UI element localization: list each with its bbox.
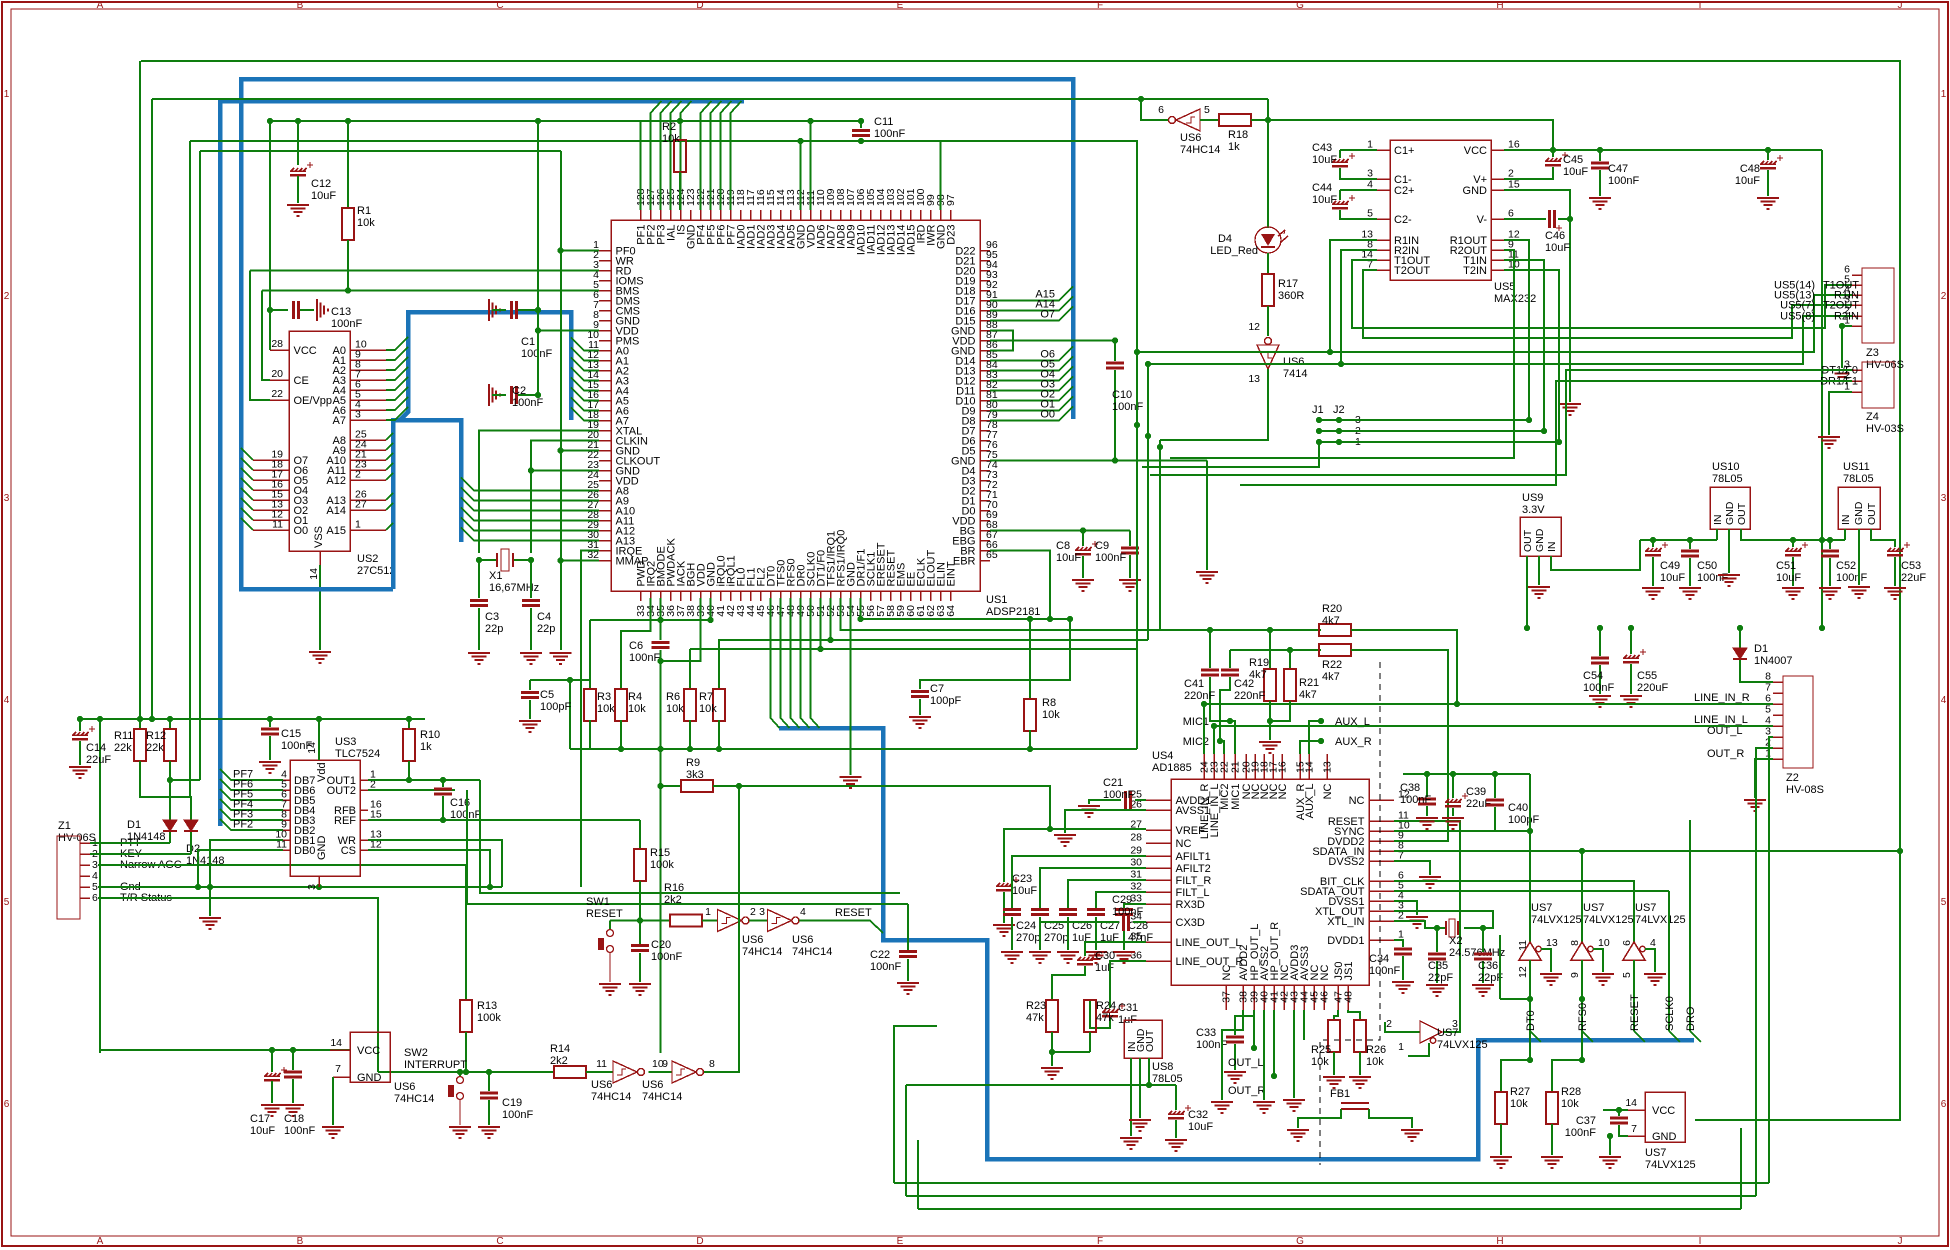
svg-text:I: I bbox=[1699, 0, 1702, 11]
svg-text:11: 11 bbox=[596, 1058, 607, 1070]
wire GND pin15 down bbox=[1504, 190, 1570, 402]
svg-text:C12: C12 bbox=[311, 178, 331, 190]
svg-text:TLC7524: TLC7524 bbox=[335, 748, 380, 760]
svg-text:R1: R1 bbox=[357, 205, 371, 217]
svg-text:X1: X1 bbox=[489, 570, 502, 582]
svg-text:1: 1 bbox=[1844, 315, 1850, 327]
wire GND pin down bbox=[332, 1077, 334, 1125]
resistor R6 10k bbox=[689, 649, 691, 690]
svg-text:C: C bbox=[496, 1236, 503, 1247]
svg-text:ADSP2181: ADSP2181 bbox=[986, 606, 1040, 618]
svg-text:US6: US6 bbox=[742, 934, 763, 946]
wire serial loop T2OUT bbox=[1363, 270, 1852, 338]
svg-text:10uF: 10uF bbox=[1545, 242, 1570, 254]
US3 GND pin 3 bbox=[318, 876, 320, 887]
svg-text:270p: 270p bbox=[1044, 932, 1068, 944]
wire INTERRUPT row bbox=[378, 1071, 554, 1073]
svg-text:I: I bbox=[1699, 1236, 1702, 1247]
wire serial loop R2IN bbox=[1341, 250, 1377, 364]
svg-text:C45: C45 bbox=[1563, 154, 1583, 166]
svg-text:OUT2: OUT2 bbox=[327, 785, 356, 797]
svg-text:100nF: 100nF bbox=[870, 961, 901, 973]
svg-text:74LVX125: 74LVX125 bbox=[1645, 1159, 1696, 1171]
wire PF1 up to VDD trunk bbox=[640, 121, 642, 210]
wire OUT1 down right bbox=[480, 780, 900, 893]
svg-text:78L05: 78L05 bbox=[1843, 473, 1874, 485]
svg-text:R17: R17 bbox=[1278, 278, 1298, 290]
svg-text:C3: C3 bbox=[485, 611, 499, 623]
svg-text:Z2: Z2 bbox=[1786, 772, 1799, 784]
svg-text:US7: US7 bbox=[1531, 902, 1552, 914]
svg-text:AUX_L: AUX_L bbox=[1304, 784, 1316, 819]
svg-text:4k7: 4k7 bbox=[1322, 615, 1340, 627]
wire Gnd row bbox=[98, 886, 502, 888]
svg-text:1: 1 bbox=[4, 89, 10, 100]
svg-text:R11: R11 bbox=[114, 730, 133, 742]
svg-text:10k: 10k bbox=[1042, 709, 1060, 721]
capacitor C22 100nF bbox=[907, 904, 909, 950]
wire D1 to PTT bbox=[169, 832, 171, 843]
svg-text:100k: 100k bbox=[477, 1012, 501, 1024]
wire D2 to KEY bbox=[190, 832, 192, 854]
wire DVSS1 gnd bbox=[1394, 901, 1417, 915]
svg-text:1: 1 bbox=[1398, 929, 1404, 941]
svg-text:US2: US2 bbox=[357, 553, 378, 565]
svg-text:9: 9 bbox=[662, 1058, 668, 1070]
inverter US6 gate B bbox=[1138, 96, 1144, 102]
svg-text:US6: US6 bbox=[591, 1079, 612, 1091]
wire pin40 GND down bbox=[710, 598, 712, 620]
wire left vertical x152 bbox=[151, 99, 153, 719]
svg-text:GND: GND bbox=[1534, 528, 1546, 552]
svg-text:C5: C5 bbox=[540, 689, 554, 701]
svg-text:10uF: 10uF bbox=[1660, 572, 1685, 584]
capacitor C38 100nF bbox=[1403, 773, 1530, 775]
svg-text:8: 8 bbox=[1569, 940, 1581, 946]
svg-text:C47: C47 bbox=[1608, 163, 1628, 175]
wire LINE_IN_R top pin bbox=[1203, 704, 1205, 754]
wire GND pin112 up bbox=[800, 141, 802, 210]
svg-text:C44: C44 bbox=[1312, 182, 1332, 194]
svg-text:8: 8 bbox=[709, 1058, 715, 1070]
svg-text:C37: C37 bbox=[1576, 1115, 1596, 1127]
svg-text:22uF: 22uF bbox=[86, 754, 111, 766]
wire LINE_IN_R long bbox=[1204, 703, 1773, 705]
wire bottom line 1209 bbox=[918, 1208, 1741, 1210]
svg-text:C38: C38 bbox=[1400, 782, 1420, 794]
svg-text:C10: C10 bbox=[1112, 389, 1132, 401]
wire LED to R17 bbox=[1267, 253, 1269, 274]
wire x190 long vertical bbox=[189, 141, 191, 797]
svg-text:C: C bbox=[496, 0, 503, 11]
svg-text:1uF: 1uF bbox=[1095, 962, 1114, 974]
svg-text:X2: X2 bbox=[1449, 935, 1462, 947]
svg-text:1k: 1k bbox=[1228, 141, 1240, 153]
svg-text:HV-06S: HV-06S bbox=[1866, 359, 1904, 371]
svg-text:11: 11 bbox=[272, 519, 283, 531]
wire pin54 GND down to ground bbox=[850, 598, 852, 775]
svg-text:22: 22 bbox=[271, 388, 283, 400]
svg-text:74HC14: 74HC14 bbox=[742, 946, 782, 958]
svg-text:B: B bbox=[297, 0, 304, 11]
svg-text:O7: O7 bbox=[1040, 309, 1055, 321]
svg-text:4k7: 4k7 bbox=[1322, 671, 1340, 683]
svg-text:10uF: 10uF bbox=[1312, 154, 1337, 166]
svg-text:R10: R10 bbox=[420, 729, 440, 741]
wire VDD87 row bbox=[990, 340, 1115, 342]
svg-text:OE/Vpp: OE/Vpp bbox=[294, 395, 333, 407]
bus main address/data loop bbox=[241, 79, 1073, 589]
svg-text:C53: C53 bbox=[1901, 560, 1921, 572]
resistor R14 2k2 bbox=[554, 1066, 586, 1078]
wire SDATA_IN to buffer2 output bbox=[1394, 850, 1900, 852]
svg-text:10k: 10k bbox=[1366, 1056, 1384, 1068]
filter capacitors C24-C28 bbox=[1012, 856, 1146, 908]
svg-text:C20: C20 bbox=[651, 939, 671, 951]
svg-text:7414: 7414 bbox=[1283, 368, 1307, 380]
svg-text:C19: C19 bbox=[502, 1097, 522, 1109]
regulator US8 78L05 bbox=[1124, 1020, 1162, 1058]
svg-text:10k: 10k bbox=[597, 703, 615, 715]
svg-text:5: 5 bbox=[1367, 208, 1373, 220]
svg-text:28: 28 bbox=[271, 338, 283, 350]
svg-text:A: A bbox=[97, 1236, 104, 1247]
wire rail y749 to left bbox=[570, 748, 590, 750]
svg-text:US5: US5 bbox=[1494, 281, 1515, 293]
svg-text:R18: R18 bbox=[1228, 129, 1248, 141]
wire rail 540 right group bbox=[1793, 539, 1845, 541]
resistor R16 2k2 bbox=[670, 915, 702, 927]
svg-text:NC: NC bbox=[1319, 965, 1331, 981]
svg-text:T2OUT: T2OUT bbox=[1394, 265, 1430, 277]
crystal X2 24.576MHz bbox=[1394, 911, 1493, 928]
wire AUX_L net stub bbox=[1318, 718, 1324, 724]
wire pin35 BMODE down bbox=[660, 598, 662, 640]
svg-text:EINT: EINT bbox=[945, 561, 957, 586]
svg-text:C31: C31 bbox=[1118, 1002, 1138, 1014]
svg-text:US1: US1 bbox=[986, 594, 1007, 606]
svg-text:100nF: 100nF bbox=[1112, 401, 1143, 413]
svg-text:OUT: OUT bbox=[1522, 529, 1534, 552]
svg-text:A14: A14 bbox=[326, 505, 346, 517]
svg-text:9: 9 bbox=[1569, 972, 1581, 978]
wire US10 OUT to rail bbox=[1741, 529, 1822, 540]
svg-text:100nF: 100nF bbox=[502, 1109, 533, 1121]
svg-text:32: 32 bbox=[1130, 881, 1142, 893]
inverter US6 gate H bbox=[672, 1061, 696, 1083]
svg-text:RESET: RESET bbox=[1629, 994, 1641, 1031]
US1 A8-A13 wires to bus bbox=[461, 478, 599, 491]
svg-text:1: 1 bbox=[355, 519, 361, 531]
svg-text:100nF: 100nF bbox=[1836, 572, 1867, 584]
svg-text:78L05: 78L05 bbox=[1152, 1073, 1183, 1085]
svg-text:GND: GND bbox=[1724, 501, 1736, 525]
wire GND88 86 link bbox=[990, 331, 1013, 351]
svg-text:22p: 22p bbox=[485, 623, 503, 635]
svg-text:CS: CS bbox=[341, 845, 356, 857]
svg-text:C13: C13 bbox=[331, 306, 351, 318]
capacitor C21 100nF bbox=[1135, 799, 1146, 801]
svg-text:VCC: VCC bbox=[1464, 145, 1487, 157]
wire R1OUT down bbox=[1504, 240, 1529, 420]
svg-text:R4: R4 bbox=[628, 691, 642, 703]
wire pin52 TFS1 trunk y640 bbox=[719, 598, 831, 660]
wire DVSS2 gnd bbox=[1394, 861, 1430, 875]
svg-text:64: 64 bbox=[945, 605, 957, 617]
svg-text:10uF: 10uF bbox=[1012, 885, 1037, 897]
svg-text:22uF: 22uF bbox=[1901, 572, 1926, 584]
svg-text:A15: A15 bbox=[326, 525, 346, 537]
wire left vertical x200 bbox=[199, 151, 201, 780]
wire R14 to gate G bbox=[586, 1071, 613, 1073]
PF label wires to US3 bbox=[220, 769, 283, 780]
svg-text:AFILT1: AFILT1 bbox=[1176, 851, 1211, 863]
svg-text:OUT_R: OUT_R bbox=[1707, 748, 1744, 760]
svg-text:C9: C9 bbox=[1095, 540, 1109, 552]
capacitor C48 10uF bbox=[1767, 150, 1769, 160]
US2 O7-O0 bus entries bbox=[241, 448, 253, 460]
wire GND21 MMAP chain x560 bbox=[560, 151, 562, 650]
wire x538 VDD vertical bbox=[537, 121, 539, 395]
svg-text:31: 31 bbox=[1130, 869, 1142, 881]
capacitor C29 100nF bbox=[1133, 921, 1146, 923]
wire row 1085 bbox=[906, 1084, 1176, 1086]
svg-text:22k: 22k bbox=[146, 742, 164, 754]
svg-text:14: 14 bbox=[1625, 1097, 1637, 1109]
wire GND23 to CLKIN vertical bbox=[531, 470, 599, 472]
svg-text:D23: D23 bbox=[945, 225, 957, 245]
wire PTT bbox=[90, 842, 170, 844]
svg-text:97: 97 bbox=[945, 194, 957, 206]
svg-text:IN: IN bbox=[1546, 542, 1558, 553]
svg-text:FILT_L: FILT_L bbox=[1176, 887, 1210, 899]
svg-text:100nF: 100nF bbox=[1103, 789, 1134, 801]
svg-text:US3: US3 bbox=[335, 736, 356, 748]
wire R8 bottom rail bbox=[1029, 730, 1031, 749]
capacitor C8 10uF bbox=[1082, 531, 1084, 547]
wire y619 segment bbox=[1047, 616, 1053, 622]
svg-text:US4: US4 bbox=[1152, 750, 1173, 762]
svg-text:RFS0: RFS0 bbox=[1577, 1003, 1589, 1031]
svg-text:10: 10 bbox=[1598, 937, 1610, 949]
wire Z2 pin1 gnd bbox=[1755, 759, 1773, 798]
wire 3.3V rail dots bbox=[1597, 625, 1603, 631]
US1 right pins bbox=[980, 250, 990, 252]
svg-text:22p: 22p bbox=[537, 623, 555, 635]
wire AUX_R net stub bbox=[1318, 738, 1324, 744]
wire VCC rail down x1822 bbox=[1821, 150, 1823, 628]
svg-text:LINE_OUT_R: LINE_OUT_R bbox=[1176, 956, 1244, 968]
svg-text:10k: 10k bbox=[662, 133, 680, 145]
wires J1 down bbox=[1142, 442, 1319, 467]
svg-text:14: 14 bbox=[1304, 761, 1316, 773]
resistor R12 22k bbox=[167, 716, 173, 722]
svg-text:C41: C41 bbox=[1184, 678, 1204, 690]
svg-text:2: 2 bbox=[1386, 1018, 1392, 1030]
capacitor C14 22uF bbox=[77, 716, 83, 722]
svg-text:100nF: 100nF bbox=[1608, 175, 1639, 187]
US2 left pins VCC CE OE bbox=[270, 349, 289, 351]
capacitor C23 10uF bbox=[1004, 829, 1050, 882]
svg-text:INTERRUPT: INTERRUPT bbox=[404, 1059, 467, 1071]
svg-text:GND: GND bbox=[1853, 501, 1865, 525]
wire RESET to gate US7 bbox=[1394, 821, 1460, 1032]
wire CS row bbox=[368, 850, 490, 887]
svg-text:OUT: OUT bbox=[1736, 502, 1748, 525]
capacitor C13 100nF bbox=[267, 307, 273, 313]
svg-text:REF: REF bbox=[334, 815, 356, 827]
capacitor C31 1uF bbox=[1110, 961, 1146, 1008]
resistor R28 10k bbox=[1552, 1060, 1582, 1092]
wire AVDD2 down bbox=[1222, 1010, 1243, 1100]
svg-text:10uF: 10uF bbox=[250, 1125, 275, 1137]
ground below US2 bbox=[309, 652, 331, 663]
bus US2 right segments bbox=[393, 420, 461, 589]
svg-text:D1: D1 bbox=[1754, 643, 1768, 655]
wire XTAL to X1 bbox=[479, 431, 599, 554]
svg-text:HV-03S: HV-03S bbox=[1866, 423, 1904, 435]
svg-text:27: 27 bbox=[355, 499, 367, 511]
svg-text:DVDD1: DVDD1 bbox=[1327, 935, 1364, 947]
resistor R9 3k3 bbox=[661, 785, 682, 787]
svg-text:US7: US7 bbox=[1645, 1147, 1666, 1159]
svg-text:R20: R20 bbox=[1322, 603, 1342, 615]
svg-text:2: 2 bbox=[1941, 291, 1947, 302]
svg-text:HV-08S: HV-08S bbox=[1786, 784, 1824, 796]
wire R17 to gate bbox=[1267, 306, 1269, 336]
wire bottom line 1183 bbox=[894, 1182, 1769, 1184]
resistor R17 360R bbox=[1262, 274, 1274, 306]
resistor R19 4k7 bbox=[1269, 630, 1271, 669]
resistor R22 4k7 bbox=[1319, 644, 1351, 656]
svg-text:100nF: 100nF bbox=[1112, 906, 1143, 918]
capacitor C2 100nF bbox=[489, 384, 500, 406]
US2 A0-A7 bus entries bbox=[386, 337, 408, 350]
svg-text:R25: R25 bbox=[1311, 1044, 1331, 1056]
svg-text:NC: NC bbox=[1277, 783, 1289, 799]
wire PF0 to trunk bbox=[561, 250, 599, 252]
svg-text:10uF: 10uF bbox=[1312, 194, 1337, 206]
svg-text:C52: C52 bbox=[1836, 560, 1856, 572]
wire VCC vertical x270 bbox=[269, 121, 271, 310]
wire rail left corner down x100 bbox=[99, 719, 101, 1053]
svg-text:C42: C42 bbox=[1234, 678, 1254, 690]
svg-text:R14: R14 bbox=[550, 1043, 570, 1055]
svg-text:E: E bbox=[897, 1236, 904, 1247]
svg-text:10k: 10k bbox=[1510, 1098, 1528, 1110]
power US7 VCC GND box bbox=[1645, 1092, 1685, 1142]
svg-text:R22: R22 bbox=[1322, 659, 1342, 671]
svg-text:270p: 270p bbox=[1016, 932, 1040, 944]
svg-text:SW1: SW1 bbox=[586, 896, 610, 908]
wire BMS line bbox=[262, 290, 599, 292]
svg-text:C2-: C2- bbox=[1394, 214, 1412, 226]
ground below C12 bbox=[287, 205, 309, 216]
svg-text:30: 30 bbox=[1130, 857, 1142, 869]
capacitor C1 100nF bbox=[489, 299, 500, 321]
wire CLKIN to X1 bbox=[531, 441, 599, 554]
svg-text:DRO: DRO bbox=[1685, 1006, 1697, 1031]
svg-text:28: 28 bbox=[1130, 832, 1142, 844]
wire US10 GND down bbox=[1728, 529, 1730, 573]
svg-text:27C512: 27C512 bbox=[357, 565, 396, 577]
US3 left pins DB7-DB0 bbox=[283, 779, 290, 781]
svg-text:R7: R7 bbox=[699, 691, 713, 703]
svg-text:C34: C34 bbox=[1369, 953, 1389, 965]
svg-text:LINE_OUT_L: LINE_OUT_L bbox=[1176, 937, 1242, 949]
resistor R24 47k bbox=[1084, 1000, 1096, 1032]
capacitor C51 10uF bbox=[1792, 540, 1794, 547]
wire RD corner down to OE/Vpp bbox=[250, 271, 270, 401]
wire 7414 gate down bbox=[1160, 369, 1268, 440]
svg-text:13: 13 bbox=[1322, 761, 1334, 773]
svg-text:US7: US7 bbox=[1635, 902, 1656, 914]
US1 right bus entries A15 A14 O7 O6-O0 bbox=[990, 287, 1073, 301]
capacitor C3 22p bbox=[478, 560, 480, 598]
capacitor C44 10uF bbox=[1340, 189, 1377, 191]
svg-text:C40: C40 bbox=[1508, 802, 1528, 814]
resistor R26 10k bbox=[1354, 1020, 1366, 1052]
svg-text:C4: C4 bbox=[537, 611, 551, 623]
svg-text:SCLK0: SCLK0 bbox=[1664, 996, 1676, 1031]
svg-text:R23: R23 bbox=[1026, 1000, 1046, 1012]
svg-text:FB1: FB1 bbox=[1330, 1088, 1350, 1100]
capacitor C46 10uF bbox=[1504, 218, 1546, 220]
svg-text:JS1: JS1 bbox=[1343, 962, 1355, 981]
svg-text:10k: 10k bbox=[666, 703, 684, 715]
resistor R10 1k bbox=[408, 719, 410, 729]
resistor R21 4k7 bbox=[1289, 650, 1291, 669]
svg-text:100nF: 100nF bbox=[874, 128, 905, 140]
svg-text:R28: R28 bbox=[1561, 1086, 1581, 1098]
svg-text:100nF: 100nF bbox=[512, 397, 543, 409]
svg-text:VCC: VCC bbox=[294, 345, 317, 357]
wire trunk y151 bbox=[200, 150, 561, 152]
wire Z3 pin1 gnd bbox=[1842, 326, 1852, 368]
svg-text:NC: NC bbox=[1221, 965, 1233, 981]
capacitor C39 22uF bbox=[1452, 774, 1454, 798]
svg-text:A7: A7 bbox=[333, 415, 346, 427]
diode D1 1N4148 bbox=[163, 820, 177, 831]
svg-text:13: 13 bbox=[1248, 373, 1260, 385]
svg-text:O0: O0 bbox=[294, 525, 309, 537]
wire OUT_L stub bbox=[1253, 1016, 1255, 1048]
wire VCC row right bbox=[1504, 149, 1822, 151]
wire pullup row y620 bbox=[590, 619, 711, 621]
wire VCC rail to power box bbox=[100, 1049, 350, 1051]
svg-text:CE: CE bbox=[294, 375, 309, 387]
svg-text:Z4: Z4 bbox=[1866, 411, 1879, 423]
svg-text:J2: J2 bbox=[1333, 404, 1345, 416]
svg-text:100nF: 100nF bbox=[331, 318, 362, 330]
capacitor C54 100nF bbox=[1599, 628, 1601, 656]
svg-text:US6: US6 bbox=[394, 1081, 415, 1093]
svg-text:OUT_R: OUT_R bbox=[1228, 1085, 1265, 1097]
wire RD line bbox=[250, 270, 599, 272]
svg-text:C46: C46 bbox=[1545, 230, 1565, 242]
wire US11 GND down bbox=[1858, 529, 1860, 585]
capacitor C33 100nF bbox=[1235, 1010, 1254, 1035]
svg-text:C51: C51 bbox=[1776, 560, 1796, 572]
svg-text:R12: R12 bbox=[146, 730, 166, 742]
US3 Vdd pin 14 bbox=[318, 719, 320, 760]
capacitor C20 100nF bbox=[639, 921, 641, 945]
svg-text:GND: GND bbox=[1463, 185, 1488, 197]
US4 top pins bbox=[1203, 754, 1205, 779]
svg-text:XTL_IN: XTL_IN bbox=[1327, 916, 1364, 928]
ground below R19 bbox=[1259, 742, 1281, 753]
svg-text:VSS: VSS bbox=[313, 526, 325, 548]
